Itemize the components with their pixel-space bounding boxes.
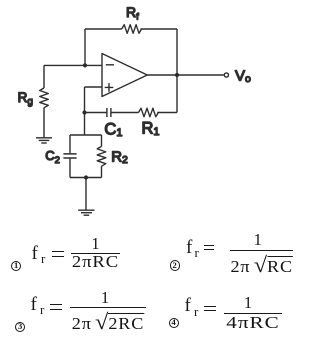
option 1 f (32, 244, 38, 263)
svg-text:R1: R1 (142, 119, 160, 138)
option 3 equals (50, 304, 62, 310)
capacitor C1 (107, 108, 111, 117)
option 1 circled number (11, 261, 21, 271)
resistor Rg (40, 88, 49, 108)
wire: non-inverting input horizontal (85, 86, 103, 88)
option 1 fraction 1 over 2piRC (71, 234, 120, 270)
wire: left vertical from top rail to inverting input (84, 29, 86, 65)
op-amp minus sign (106, 64, 114, 66)
wire: Rg top lead (43, 65, 45, 88)
wire: between C1 and R1 (111, 112, 138, 114)
svg-text:C2: C2 (45, 148, 60, 166)
wire: inverting input horizontal (44, 64, 102, 66)
svg-text:Rg: Rg (18, 90, 33, 108)
circuit schematic (0, 0, 324, 230)
wire: tank top rail (70, 134, 102, 136)
wire: C1 left lead (85, 112, 107, 114)
option 2 fraction 1 over 2pi sqrt RC (230, 230, 294, 274)
wire: op-amp output to Vo terminal (147, 74, 224, 76)
option 3 fraction 1 over 2pi sqrt 2RC (70, 288, 146, 331)
svg-text:R2: R2 (111, 149, 128, 167)
option 2 f (186, 238, 192, 257)
op-amp plus sign (105, 83, 114, 92)
option 2 subscript r (195, 246, 199, 259)
resistor R1 (139, 108, 159, 117)
wire: vertical from C1 node down to tank top rail (84, 113, 86, 136)
option 4 equals (204, 306, 216, 312)
resistor R2 (97, 146, 106, 166)
option 4 subscript r (194, 305, 198, 318)
option 2 circled number (170, 260, 180, 270)
capacitor C2 (63, 154, 76, 158)
option 3 subscript r (40, 303, 44, 316)
wire: right vertical from Rf down to R1 (176, 29, 178, 113)
node: C1/R1 junction dot (82, 110, 86, 114)
wire: tank bottom rail (70, 177, 102, 179)
resistor Rf (122, 25, 142, 34)
node: output junction dot (175, 73, 179, 77)
option 4 circled number (169, 318, 179, 328)
wire: R1 right lead to right vertical (157, 112, 177, 114)
wire: R2 top lead (101, 135, 103, 146)
terminal: Vo open circle (224, 73, 228, 77)
wire: top feedback rail right segment (140, 28, 177, 30)
option 3 f (31, 295, 37, 314)
op-amp U1 (102, 54, 147, 97)
ground under Rg (36, 138, 52, 143)
svg-text:Vo: Vo (235, 67, 251, 85)
wire: stem to bottom ground (85, 178, 87, 210)
option 2 equals (204, 245, 214, 251)
wire: R2 bottom lead (101, 166, 103, 177)
option 1 equals (52, 251, 64, 257)
node: inverting input junction dot (83, 63, 87, 67)
option 4 f (185, 296, 191, 315)
node: tank bottom junction dot (84, 175, 88, 179)
ground under tank (78, 210, 94, 215)
option 3 circled number (15, 322, 25, 332)
option 4 fraction 1 over 4piRC (224, 293, 282, 330)
wire: vertical from + input down to C1 node (84, 87, 86, 113)
option 1 subscript r (41, 252, 45, 265)
wire: Rg bottom lead (43, 108, 45, 137)
wire: C2 bottom lead (69, 159, 71, 178)
wire: C2 top lead (69, 135, 71, 153)
svg-text:C1: C1 (104, 120, 122, 139)
wire: top feedback rail left segment (85, 28, 122, 30)
svg-text:Rf: Rf (126, 4, 139, 22)
